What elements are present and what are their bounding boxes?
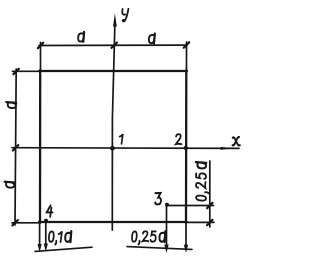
left dimension line	[15, 69, 16, 225]
tick right-dim-bottom	[207, 220, 212, 225]
extension line below left edge	[39, 222, 41, 245]
tick top-left	[38, 43, 43, 48]
point 1 dot	[110, 146, 115, 151]
point 2 dot	[184, 146, 188, 150]
plate bottom edge	[39, 221, 187, 223]
label 4	[47, 205, 53, 216]
x axis	[12, 147, 239, 150]
extension line below point 3	[166, 205, 168, 245]
0,1a dimension line	[35, 247, 92, 251]
tick top-center	[112, 43, 117, 48]
label y	[122, 9, 128, 22]
top dimension line	[39, 44, 187, 46]
right 0,25a dimension line	[209, 161, 211, 227]
plate right edge	[185, 70, 188, 223]
tick right-dim-top	[207, 203, 212, 208]
label 0,25a right (rotated)	[196, 162, 209, 200]
label 1	[120, 134, 123, 144]
y axis arrowhead	[113, 13, 117, 26]
extension line above left edge	[40, 43, 42, 71]
plate left edge	[39, 70, 42, 223]
label 0,25a bottom	[132, 231, 165, 244]
extension line below point 4	[45, 221, 47, 244]
tick top-right	[184, 42, 189, 47]
label 0,1a	[49, 231, 71, 244]
tick left-bottom	[12, 220, 17, 225]
tick left-top	[13, 69, 18, 74]
label 3	[155, 193, 161, 204]
extension line below right edge	[185, 222, 187, 245]
point 4 dot	[44, 219, 48, 223]
extension line above right edge	[186, 42, 188, 70]
label x	[233, 137, 240, 145]
extension line top edge to left	[13, 70, 41, 72]
label a top-right	[149, 34, 155, 44]
arrow at right edge extension	[184, 245, 188, 253]
x axis arrowhead	[221, 147, 235, 150]
extension line bottom edge to right	[186, 221, 214, 223]
arrow at point4 extension	[44, 244, 48, 252]
plate top edge	[39, 70, 187, 72]
label a left-upper (rotated)	[6, 102, 16, 108]
arrow at point3 extension	[164, 245, 168, 253]
arrow at left edge extension	[38, 244, 42, 252]
extension line bottom edge to left	[12, 222, 40, 224]
point 3 dot	[165, 203, 169, 207]
label 2	[176, 134, 182, 144]
y axis	[112, 24, 115, 230]
label a left-lower (rotated)	[5, 182, 15, 188]
bottom 0,25a dimension line	[127, 247, 192, 250]
line through point 3	[167, 205, 214, 207]
tick left-middle	[13, 145, 18, 150]
label a top-left	[78, 32, 84, 42]
